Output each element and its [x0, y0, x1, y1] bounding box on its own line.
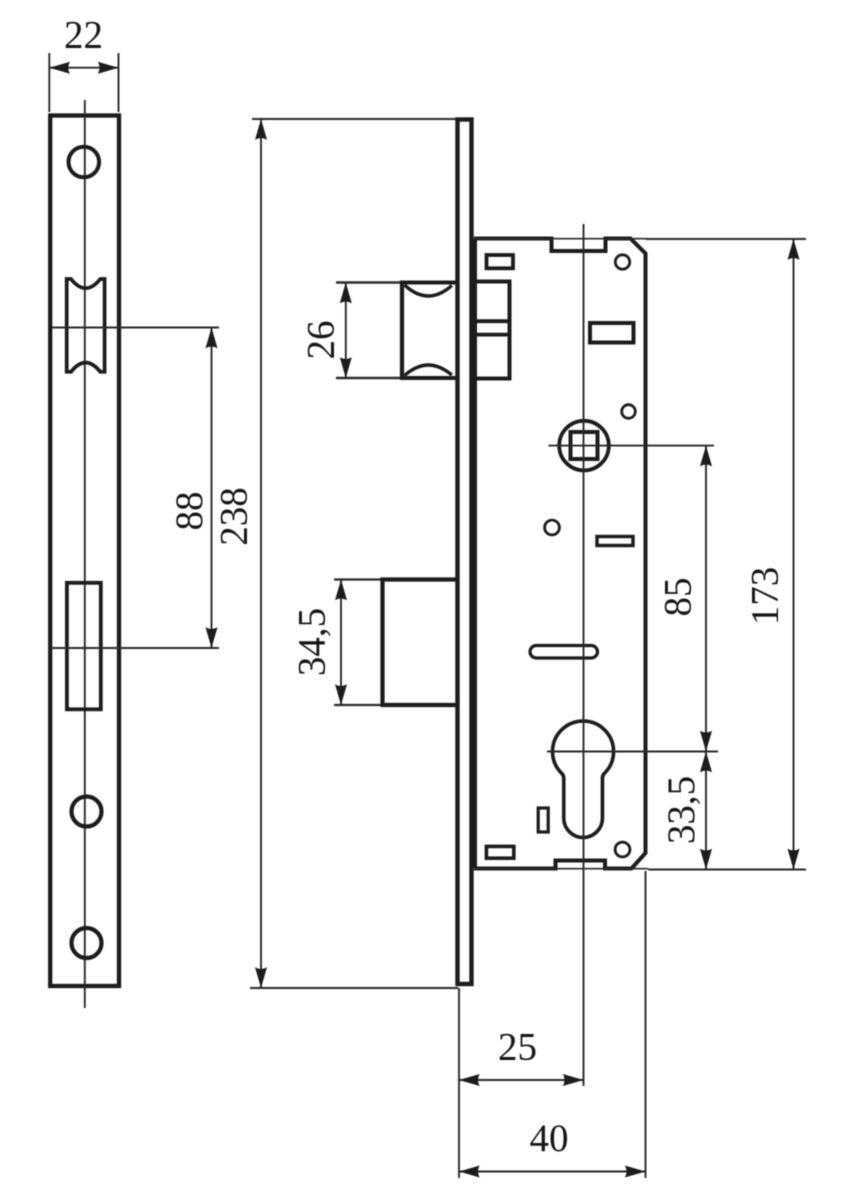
dim 26 arrow top [340, 283, 352, 304]
dim 22 extension right [118, 53, 120, 112]
faceplate [458, 120, 472, 985]
latch bolt bottom spool arc [405, 365, 452, 376]
svg-text:26: 26 [300, 321, 343, 360]
svg-text:173: 173 [744, 567, 787, 626]
dim 238 line [260, 119, 262, 988]
dim 25 arrow left [459, 1074, 480, 1086]
dim 88 arrow top [206, 328, 218, 349]
dim 238 arrow bottom [255, 967, 267, 988]
strike plate top screw hole [69, 147, 100, 178]
svg-text:34,5: 34,5 [291, 608, 334, 676]
case top extension right [646, 238, 806, 240]
dim 238 arrow top [255, 119, 267, 140]
dim 26 arrow bottom [340, 357, 352, 378]
dim 22 arrow left [49, 62, 70, 74]
latch bolt top spool arc [405, 285, 452, 296]
dim 88 line [211, 328, 213, 649]
dim 33,5 arrow top [700, 752, 712, 773]
case screw slot top [487, 255, 514, 268]
deadbolt top edge [381, 577, 456, 581]
svg-text:25: 25 [498, 1026, 537, 1069]
svg-text:88: 88 [168, 492, 211, 531]
dim 34,5 arrow top [335, 580, 347, 601]
dim 40 arrow left [459, 1166, 480, 1178]
dim 25 line [459, 1079, 584, 1081]
latch bolt left edge [400, 281, 404, 381]
dim 173 arrow bottom [788, 849, 800, 870]
strike plate deadbolt cutout [67, 583, 101, 710]
strike plate outline [50, 116, 119, 987]
deadbolt bottom edge extension [334, 704, 383, 706]
case screw hole middle [622, 405, 636, 419]
case screw hole bottom right [615, 842, 630, 857]
dim 34,5 line [340, 580, 342, 706]
svg-text:22: 22 [64, 14, 103, 57]
deadbolt top edge extension [334, 578, 383, 580]
dim 34,5 arrow bottom [335, 684, 347, 705]
horizontal centerline spindle [549, 445, 715, 447]
dim 22 arrow right [98, 62, 119, 74]
euro cylinder hole [553, 721, 614, 837]
case wide slot right of latch housing [590, 323, 634, 343]
latch housing bar upper [477, 319, 508, 323]
case bottom edge thin continuation [474, 868, 648, 870]
strike plate bottom screw hole [72, 928, 102, 958]
svg-text:85: 85 [657, 578, 700, 617]
dim 88 arrow bottom [206, 627, 218, 648]
case hole left [545, 520, 560, 535]
spindle hub circle [559, 421, 609, 471]
dim 40 line [459, 1171, 646, 1173]
svg-text:238: 238 [213, 487, 256, 546]
reference line deadbolt center [52, 647, 219, 649]
case small slot above bottom [538, 808, 548, 832]
dim 85 arrow top [700, 446, 712, 467]
dim 238 extension top [252, 118, 456, 120]
strike plate lower screw hole [72, 797, 102, 827]
dim 22 extension left [48, 53, 50, 112]
horizontal centerline cylinder [547, 751, 718, 753]
latch housing bar lower [477, 333, 508, 337]
latch bolt top edge [401, 281, 456, 285]
dim 22 line [49, 67, 118, 69]
dim 85 line [705, 446, 707, 752]
strike plate roller cutout [67, 279, 105, 372]
case slot middle right [597, 537, 633, 546]
vertical centerline cylinder/spindle [583, 224, 585, 1086]
latch bolt top edge extension [336, 281, 403, 284]
deadbolt bottom edge [381, 703, 456, 707]
faceplate left extension down [458, 988, 460, 1178]
case pill slot [530, 646, 598, 659]
svg-text:40: 40 [530, 1117, 569, 1160]
case screw hole top right [615, 255, 629, 269]
spindle square hole [571, 432, 598, 459]
case slot bottom left [486, 846, 513, 858]
dim 25 arrow right [563, 1074, 584, 1086]
dim 85 arrow bottom [700, 731, 712, 752]
dim 33,5 line [705, 752, 707, 870]
case top edge thin continuation [474, 238, 648, 240]
dim 26 line [345, 283, 347, 379]
strike plate centerline [84, 100, 86, 1008]
dim 173 arrow top [788, 239, 800, 260]
latch bolt bottom edge [401, 376, 456, 380]
latch bolt bottom edge extension [336, 377, 403, 380]
deadbolt left edge [380, 578, 384, 708]
case right extension down [645, 871, 647, 1178]
dim 40 arrow right [625, 1166, 646, 1178]
dim 173 line [793, 239, 795, 870]
case bottom extension right [648, 869, 806, 871]
lock case outline [474, 239, 646, 869]
svg-text:33,5: 33,5 [660, 776, 703, 844]
dim 33,5 arrow bottom [700, 849, 712, 870]
latch housing [475, 282, 510, 379]
dim 238 extension bottom [250, 987, 458, 989]
reference line roller center [52, 327, 219, 329]
lock case left edge [473, 239, 477, 869]
